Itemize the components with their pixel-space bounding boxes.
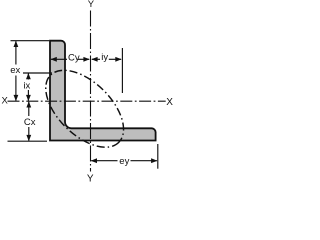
Y axis bbox=[90, 11, 92, 172]
angle section (L profile) bbox=[50, 41, 156, 141]
bottom extension line (Cx) bbox=[8, 140, 48, 142]
svg-text:X: X bbox=[2, 96, 9, 107]
ey extension line right bbox=[157, 144, 159, 169]
iy extension line bbox=[121, 48, 123, 93]
svg-text:Cy: Cy bbox=[68, 53, 80, 64]
svg-text:Y: Y bbox=[87, 174, 94, 185]
dimension Cx bbox=[24, 101, 36, 141]
svg-text:iy: iy bbox=[101, 52, 108, 63]
dimension ey bbox=[91, 156, 158, 167]
dimension Cy bbox=[51, 53, 90, 64]
X axis bbox=[8, 100, 166, 102]
svg-text:ey: ey bbox=[119, 156, 129, 167]
svg-text:ex: ex bbox=[10, 65, 20, 76]
top extension line (ex) bbox=[11, 40, 50, 42]
svg-text:Cx: Cx bbox=[24, 117, 36, 128]
svg-text:X: X bbox=[166, 97, 173, 108]
dimension ix bbox=[23, 73, 30, 101]
svg-text:ix: ix bbox=[23, 80, 30, 91]
inertia ellipse bbox=[32, 56, 137, 161]
dimension iy bbox=[91, 52, 121, 63]
svg-text:Y: Y bbox=[88, 0, 95, 10]
dimension ex bbox=[10, 41, 20, 101]
ix extension line bbox=[23, 72, 52, 74]
